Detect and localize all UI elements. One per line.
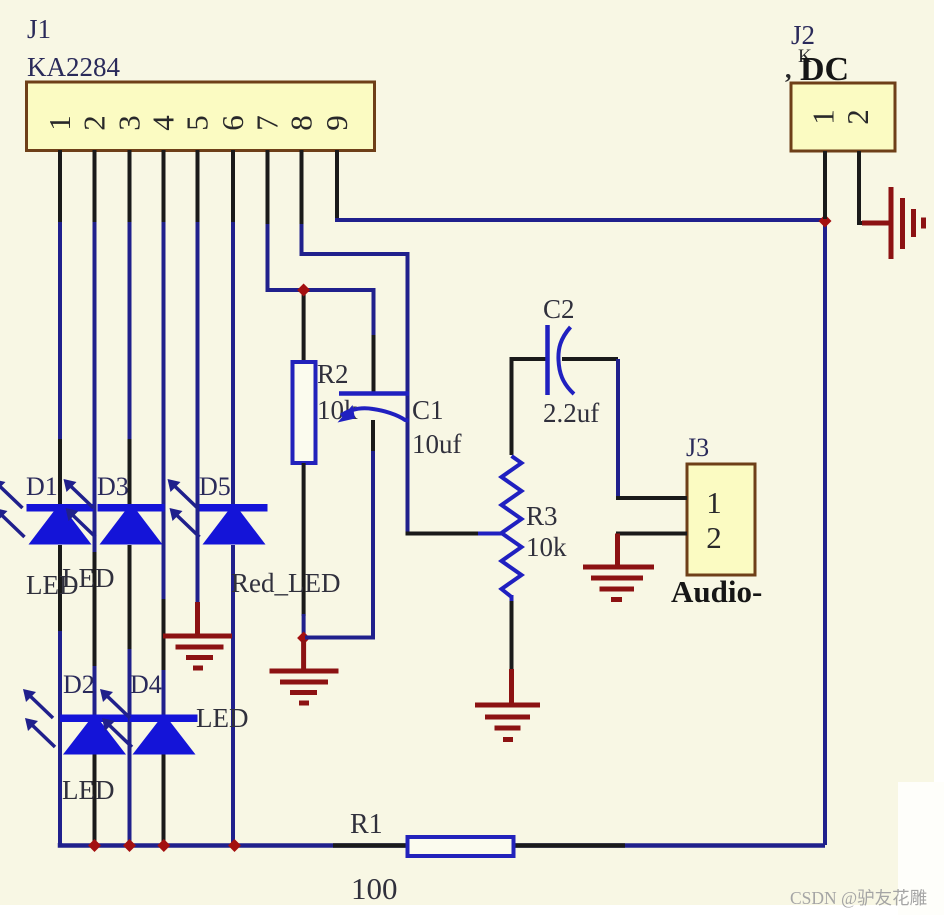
svg-text:2: 2: [840, 109, 875, 125]
svg-text:1: 1: [42, 115, 77, 131]
svg-text:KA2284: KA2284: [27, 52, 120, 82]
svg-text:2: 2: [706, 520, 722, 555]
wire pin9 / supply net: [337, 150, 825, 845]
wire R2 bottom lead: [302, 463, 306, 637]
capacitor C1: [338, 394, 410, 423]
wire bottom net: [60, 843, 825, 846]
ground at J2 pin2 (rotated): [862, 187, 924, 259]
resistor R2: [293, 362, 316, 463]
svg-text:Red_LED: Red_LED: [231, 568, 340, 598]
svg-text:DC: DC: [800, 51, 849, 88]
wire pin5 column: [196, 150, 200, 604]
svg-text:LED: LED: [196, 703, 248, 733]
svg-text:10uf: 10uf: [412, 429, 462, 459]
svg-text:5: 5: [180, 115, 215, 131]
resistor R1: [408, 837, 514, 856]
svg-text:LED: LED: [62, 563, 114, 593]
svg-text:D2: D2: [63, 670, 95, 699]
svg-text:10k: 10k: [526, 532, 567, 562]
svg-text:2: 2: [77, 115, 112, 131]
wire pin7 net: [268, 150, 374, 392]
wire J2 pin1 lead: [823, 151, 827, 219]
svg-text:2.2uf: 2.2uf: [543, 398, 599, 428]
ground below pin5 column: [163, 602, 232, 668]
svg-text:9: 9: [319, 115, 354, 131]
svg-text:CSDN @驴友花雕: CSDN @驴友花雕: [790, 888, 927, 908]
ground below R2: [270, 640, 339, 703]
junction node bottom col6: [228, 839, 241, 852]
wire pin8 net: [302, 150, 505, 534]
svg-text:C1: C1: [412, 395, 444, 425]
connector J1: [27, 82, 375, 151]
junction node bottom col3: [123, 839, 136, 852]
junction node bottom col2: [88, 839, 101, 852]
svg-text:D1: D1: [26, 472, 58, 501]
wire pin2 column: [93, 150, 97, 845]
LED D3: [64, 479, 165, 545]
svg-text:D4: D4: [130, 670, 162, 699]
svg-text:1: 1: [806, 109, 841, 125]
wire pin4 column: [162, 150, 166, 845]
svg-text:3: 3: [112, 115, 147, 131]
wire J3 pin2 lead: [616, 532, 687, 536]
LED D4: [100, 689, 198, 755]
capacitor C2: [548, 325, 575, 395]
svg-text:100: 100: [351, 871, 398, 906]
svg-text:7: 7: [250, 115, 285, 131]
svg-text:R3: R3: [526, 501, 558, 531]
LED D2: [23, 689, 128, 755]
svg-text:D5: D5: [199, 472, 231, 501]
svg-text:R2: R2: [317, 359, 349, 389]
LED D5: [168, 479, 268, 545]
wire pin1 column: [58, 150, 62, 845]
svg-text:J3: J3: [686, 433, 709, 462]
junction node bottom col4: [157, 839, 170, 852]
junction node J2 pin1: [819, 215, 832, 228]
wire pin3 column: [128, 150, 132, 845]
svg-text:1: 1: [706, 485, 722, 520]
ground below R3: [475, 669, 540, 740]
connector J2: [791, 83, 895, 151]
wire J2 pin2 lead: [859, 151, 891, 223]
svg-text:LED: LED: [62, 775, 114, 805]
junction node R2 bottom: [297, 632, 310, 645]
LED D1: [0, 479, 94, 545]
svg-text:J1: J1: [27, 14, 51, 44]
wire J3 pin1 lead: [616, 496, 687, 500]
svg-text:4: 4: [146, 115, 181, 131]
ground at J3 pin2: [583, 534, 654, 600]
wire C2 right lead: [562, 359, 618, 498]
junction node pin7/R2/C1: [297, 284, 310, 297]
svg-text:Audio-: Audio-: [671, 574, 762, 609]
wire C1 bottom lead: [305, 420, 373, 638]
svg-text:D3: D3: [97, 472, 129, 501]
resistor R3: [502, 359, 547, 671]
svg-text:C2: C2: [543, 294, 575, 324]
svg-text:R1: R1: [350, 809, 383, 840]
connector J3: [687, 464, 755, 575]
svg-text:,: ,: [785, 55, 792, 84]
svg-text:6: 6: [215, 115, 250, 131]
svg-text:8: 8: [284, 115, 319, 131]
wire pin6 column: [231, 150, 235, 845]
